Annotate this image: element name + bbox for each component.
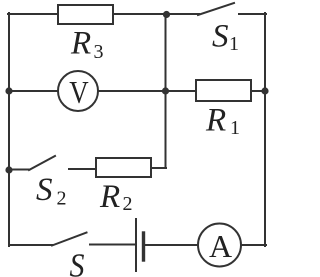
svg-text:2: 2 (57, 188, 67, 210)
resistor R1 (196, 80, 251, 101)
switch S2 blade (29, 156, 55, 170)
node junction dot left S2 row (5, 166, 12, 173)
wire top middle segment (112, 13, 199, 15)
svg-text:R: R (70, 26, 91, 62)
svg-text:1: 1 (229, 33, 239, 55)
wire S2 row middle (69, 168, 97, 170)
svg-text:V: V (69, 76, 88, 111)
wire bottom left (9, 244, 53, 246)
wire inner vertical (165, 13, 167, 168)
battery short plate (142, 233, 145, 260)
svg-text:R: R (205, 103, 226, 139)
switch S blade (52, 233, 87, 246)
wire bottom right (241, 244, 266, 246)
wire top right segment (239, 13, 266, 15)
wire top left segment (8, 13, 59, 15)
wire bottom middle (90, 244, 135, 246)
resistor R3 (58, 5, 113, 24)
svg-text:2: 2 (123, 193, 133, 215)
wire left vertical (8, 13, 10, 246)
wire right vertical (264, 13, 266, 246)
voltmeter V1 circle (58, 71, 98, 111)
wire battery to ammeter (145, 244, 198, 246)
svg-text:S: S (36, 172, 53, 208)
svg-text:A: A (209, 228, 232, 264)
svg-text:S: S (70, 246, 85, 277)
wire middle row left (9, 90, 58, 92)
wire middle row center (98, 90, 196, 92)
node junction dot right middle (261, 87, 268, 94)
ammeter A1 circle (198, 224, 241, 267)
svg-text:1: 1 (230, 117, 240, 139)
node junction dot top (163, 11, 170, 18)
svg-text:S: S (212, 19, 229, 55)
svg-text:R: R (99, 179, 120, 215)
node junction dot left middle (5, 87, 12, 94)
resistor R2 (96, 158, 151, 177)
wire middle row right (251, 90, 266, 92)
switch S1 blade (198, 3, 234, 15)
wire S2 row left (9, 169, 30, 171)
wire R2 right stub (150, 167, 166, 169)
svg-text:3: 3 (94, 41, 104, 63)
battery long plate (135, 219, 137, 271)
node junction dot middle (162, 87, 169, 94)
